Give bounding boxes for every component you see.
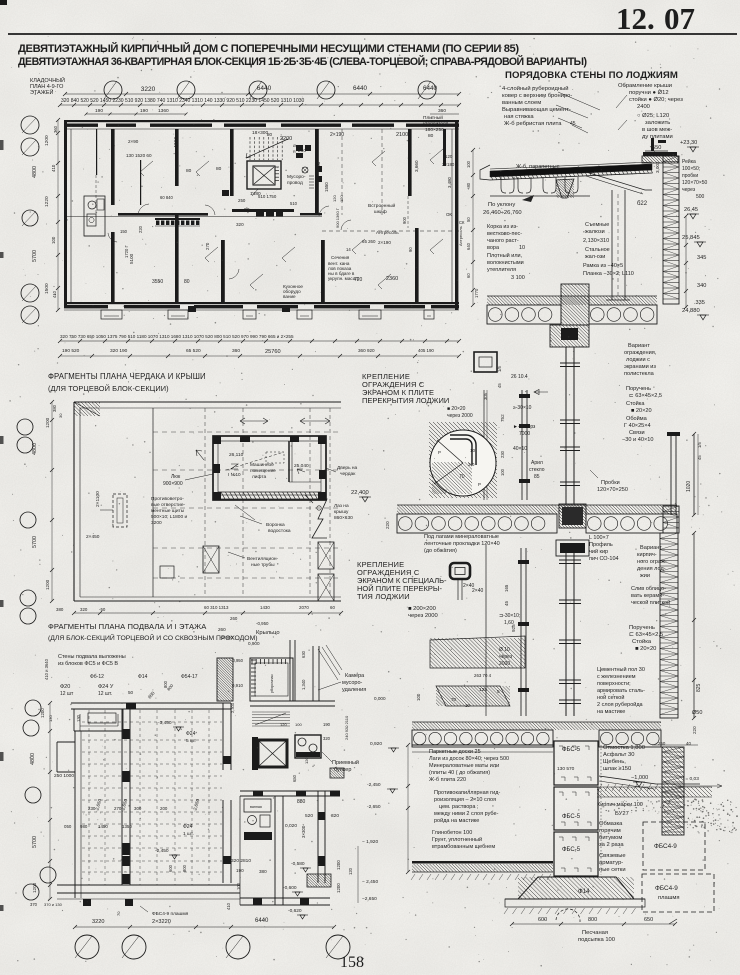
svg-text:Выравнивающая цемент-: Выравнивающая цемент- (502, 107, 571, 113)
svg-text:120: 120 (304, 757, 309, 764)
svg-text:Лаз на: Лаз на (334, 503, 349, 509)
svg-text:Песчаная: Песчаная (582, 930, 608, 936)
floor slab left lines (412, 744, 553, 746)
clamp detail 2 rounded (450, 563, 470, 579)
svg-text:Планка −30×2; L110: Планка −30×2; L110 (583, 271, 634, 277)
svg-text:утеплителя: утеплителя (487, 267, 516, 273)
svg-text:263 70 4: 263 70 4 (474, 673, 492, 678)
svg-text:300: 300 (134, 806, 142, 811)
jalousie frame (611, 190, 613, 300)
svg-text:Ф14: Ф14 (578, 888, 590, 895)
svg-text:ФБС4-9: ФБС4-9 (654, 843, 677, 850)
svg-text:ванная: ванная (250, 805, 262, 809)
svg-text:260: 260 (218, 627, 226, 632)
svg-text:120: 120 (348, 867, 353, 875)
svg-text:роизоляция – 2×10 слоя: роизоляция – 2×10 слоя (434, 797, 496, 803)
svg-text:3200: 3200 (151, 520, 162, 526)
svg-text:ФБС-5: ФБС-5 (562, 747, 581, 753)
svg-text:3,660: 3,660 (414, 160, 419, 172)
attic machine room (213, 436, 326, 500)
svg-text:пробки: пробки (682, 173, 698, 179)
basement right wall of left wing (222, 703, 224, 770)
svg-text:12 шт.: 12 шт. (98, 691, 112, 697)
svg-text:80: 80 (216, 166, 222, 172)
svg-text:825: 825 (696, 683, 702, 692)
svg-text:6440: 6440 (257, 85, 272, 92)
svg-text:1550: 1550 (324, 182, 329, 192)
attic drain funnel (312, 499, 327, 538)
svg-text:12.: 12. (616, 1, 655, 36)
svg-text:помещение: помещение (250, 469, 276, 474)
svg-text:410: 410 (226, 902, 231, 910)
svg-text:1020: 1020 (686, 481, 692, 492)
svg-text:100: 100 (51, 236, 56, 244)
svg-text:1450: 1450 (98, 824, 108, 829)
svg-text:Корка из из-: Корка из из- (487, 224, 518, 230)
svg-text:Антресоль: Антресоль (376, 230, 399, 235)
svg-text:0,900: 0,900 (248, 641, 260, 646)
machine room inner wall (288, 441, 290, 482)
svg-text:80: 80 (186, 168, 192, 174)
svg-text:5: 5 (497, 689, 500, 695)
svg-text:190: 190 (236, 868, 244, 873)
svg-text:Плотный или,: Плотный или, (487, 252, 523, 259)
svg-text:2360: 2360 (386, 276, 398, 282)
svg-text:3220: 3220 (92, 919, 104, 925)
svg-text:12 шт: 12 шт (60, 691, 74, 697)
attic outline (74, 401, 341, 403)
svg-text:стекло: стекло (529, 467, 545, 473)
svg-text:370 и 130: 370 и 130 (44, 902, 63, 907)
svg-text:водостока: водостока (268, 529, 291, 534)
svg-text:− 1,920: − 1,920 (362, 839, 378, 845)
plan1 door diagonals (140, 161, 153, 172)
svg-text:удаления: удаления (342, 687, 366, 693)
svg-text:190: 190 (323, 722, 331, 727)
svg-text:Машинное: Машинное (250, 462, 274, 468)
svg-text:ные трубы: ные трубы (251, 562, 275, 568)
svg-text:4-слойный рубероидный: 4-слойный рубероидный (502, 85, 568, 92)
stairs in entry (252, 711, 290, 713)
svg-text:120×70×50: 120×70×50 (682, 180, 708, 186)
svg-text:40×10: 40×10 (513, 446, 527, 452)
plan1 lower kitchen band (155, 218, 200, 220)
svg-text:Ф24: Ф24 (183, 824, 193, 830)
svg-text:ческой плиткой: ческой плиткой (631, 599, 670, 606)
svg-text:Фб-12: Фб-12 (90, 674, 104, 680)
svg-text:Приемный: Приемный (332, 759, 359, 766)
otmostka slope (599, 776, 700, 784)
ground hatch band (412, 861, 553, 864)
plan1 left axis circles (21, 116, 39, 134)
svg-text:укрупн. масшт.: укрупн. масшт. (328, 276, 359, 281)
svg-text:ментные щиты: ментные щиты (151, 509, 185, 514)
svg-text:24,880: 24,880 (682, 308, 700, 314)
svg-text:2000: 2000 (499, 661, 510, 667)
svg-text:320: 320 (80, 607, 88, 612)
svg-text:на мастике: на мастике (597, 709, 625, 715)
svg-text:ванным слоем: ванным слоем (502, 100, 541, 106)
svg-text:120: 120 (280, 722, 287, 727)
attic dashed pier (113, 494, 127, 527)
svg-text:220: 220 (385, 521, 390, 529)
svg-text:1720 Г: 1720 Г (124, 245, 129, 258)
pier below slab1 (550, 325, 589, 347)
right wall hatched block (307, 874, 331, 887)
svg-text:втрамбованным щебнем: втрамбованным щебнем (432, 844, 495, 850)
svg-text:900×900: 900×900 (163, 481, 183, 487)
slab1 hollow core (487, 305, 561, 324)
svg-text:чаного раст-: чаного раст- (487, 238, 519, 244)
svg-text:Стены подвала выложены: Стены подвала выложены (58, 654, 126, 660)
svg-text:260: 260 (230, 616, 238, 621)
svg-text:между ними 2 слоя рубе-: между ними 2 слоя рубе- (434, 811, 499, 817)
svg-text:битумом: битумом (599, 835, 622, 841)
svg-text:ПЕРЕКРЫТИЯ ЛОДЖИИ: ПЕРЕКРЫТИЯ ЛОДЖИИ (362, 396, 449, 405)
svg-text:2×180: 2×180 (442, 162, 455, 167)
roof ribs (501, 177, 514, 193)
svg-text:510 1750: 510 1750 (258, 194, 277, 199)
svg-text:через: через (499, 654, 513, 660)
svg-text:360: 360 (53, 125, 58, 133)
basement dashed grid vertical (88, 710, 90, 885)
svg-text:2×90: 2×90 (128, 139, 139, 144)
svg-text:22,400: 22,400 (351, 490, 369, 496)
bottom axis circles (75, 935, 99, 959)
svg-text:100: 100 (236, 882, 241, 890)
svg-text:Крыльцо: Крыльцо (256, 630, 280, 636)
entry left toilet box (217, 658, 233, 701)
svg-text:510: 510 (290, 201, 298, 206)
svg-text:пич СО-104: пич СО-104 (589, 556, 619, 562)
roof drain funnel (556, 179, 574, 198)
svg-text:Стойка: Стойка (626, 400, 645, 407)
sand pad circle (556, 909, 580, 922)
svg-text:Ж-б ребристая плита: Ж-б ребристая плита (504, 121, 562, 127)
svg-text:380: 380 (259, 869, 267, 874)
svg-text:900: 900 (402, 216, 407, 224)
svg-text:Съемные: Съемные (585, 222, 609, 228)
svg-text:2×1100: 2×1100 (95, 491, 101, 507)
paper noise (0, 0, 1, 1)
svg-text:(до обжатия): (до обжатия) (424, 548, 457, 554)
right brick wall upper (663, 156, 679, 304)
svg-text:ФРАГМЕНТЫ ПЛАНА ЧЕРДАКА И: ФРАГМЕНТЫ ПЛАНА ЧЕРДАКА И КРЫШИ (48, 372, 206, 381)
svg-text:240 920 2110: 240 920 2110 (344, 715, 349, 740)
svg-text:90: 90 (408, 247, 413, 252)
svg-text:600: 600 (168, 864, 173, 872)
basement bottom wall (57, 884, 240, 886)
trapezoid base (505, 898, 645, 900)
svg-text:Обрамление крыши: Обрамление крыши (618, 83, 672, 89)
svg-text:0,000: 0,000 (374, 696, 386, 701)
svg-text:14: 14 (346, 247, 351, 252)
svg-text:ФБС4-9 плашмя: ФБС4-9 плашмя (152, 911, 189, 917)
basement elevator (258, 740, 287, 767)
svg-text:500×10; L1800 и: 500×10; L1800 и (151, 514, 187, 520)
svg-text:Лаги из досок 80×40; через 500: Лаги из досок 80×40; через 500 (429, 756, 509, 762)
svg-text:Под лагами минераловатные: Под лагами минераловатные (424, 534, 499, 540)
svg-text:2400: 2400 (637, 104, 650, 110)
svg-text:25760: 25760 (265, 349, 281, 355)
svg-text:горячим: горячим (599, 828, 621, 834)
svg-text:0,920: 0,920 (370, 741, 382, 747)
svg-text:Глинобетон 100: Глинобетон 100 (432, 830, 472, 836)
svg-text:230: 230 (88, 806, 96, 811)
svg-text:⊏ 63×45×2,5: ⊏ 63×45×2,5 (629, 393, 662, 399)
svg-text:320: 320 (323, 736, 331, 741)
level3 left edge (485, 545, 487, 716)
svg-text:-0,950: -0,950 (256, 621, 269, 626)
upper appendix box (73, 709, 75, 731)
svg-text:шкаф: шкаф (374, 209, 387, 215)
svg-text:Р: Р (478, 482, 481, 487)
svg-text:380: 380 (52, 404, 57, 412)
svg-text:130 1520 60: 130 1520 60 (126, 153, 152, 158)
bathroom fixtures left (84, 196, 105, 236)
svg-text:жии: жии (640, 573, 650, 579)
svg-text:1770: 1770 (474, 288, 479, 298)
svg-text:65 260: 65 260 (362, 239, 376, 244)
svg-text:752: 752 (500, 414, 505, 422)
svg-text:i = 0,03: i = 0,03 (683, 776, 699, 782)
svg-text:130: 130 (48, 715, 53, 722)
bathroom lower (244, 799, 271, 812)
svg-text:+80: +80 (466, 182, 471, 190)
svg-text:230: 230 (500, 450, 505, 458)
slab2 hollow core (397, 514, 557, 533)
svg-text:520: 520 (305, 813, 313, 819)
plan1 kitchen vent blocks (256, 210, 264, 217)
svg-text:1200: 1200 (336, 860, 341, 870)
header rule (8, 33, 737, 35)
svg-text:1200: 1200 (45, 579, 50, 590)
svg-text:5700: 5700 (32, 250, 38, 262)
svg-text:50: 50 (466, 217, 471, 222)
svg-text:85: 85 (534, 474, 540, 480)
plan1 right exterior wall (455, 120, 458, 310)
svg-text:(ДЛЯ ТОРЦЕВОЙ БЛОК-СЕКЦИИ): (ДЛЯ ТОРЦЕВОЙ БЛОК-СЕКЦИИ) (48, 384, 169, 393)
svg-text:260: 260 (298, 148, 306, 154)
svg-text:Цементный пол 30: Цементный пол 30 (597, 666, 645, 673)
svg-text:320 750 730 650 1050 137: 320 750 730 650 1050 1375 790 510 1180 1… (60, 334, 294, 339)
svg-text:80: 80 (184, 279, 190, 285)
svg-text:ТИЯ ЛОДЖИИ: ТИЯ ЛОДЖИИ (357, 592, 410, 601)
svg-text:345: 345 (697, 255, 706, 261)
foundation width dims (512, 923, 675, 925)
svg-text:800: 800 (588, 917, 597, 923)
svg-text:Ф54-17: Ф54-17 (181, 674, 198, 680)
svg-text:45: 45 (697, 455, 702, 460)
svg-text:полистекла: полистекла (624, 371, 655, 377)
svg-text:100: 100 (416, 693, 421, 701)
svg-text:60 840: 60 840 (160, 195, 173, 200)
svg-text:650: 650 (644, 917, 653, 923)
svg-text:Стойка: Стойка (632, 638, 652, 645)
svg-text:100: 100 (500, 468, 505, 476)
svg-text:405 190: 405 190 (418, 348, 434, 353)
svg-text:Связевые: Связевые (599, 853, 626, 859)
svg-text:26 10.4: 26 10.4 (511, 374, 528, 380)
svg-text:Г 40×25×4: Г 40×25×4 (624, 423, 651, 429)
svg-text:-0,980: -0,980 (220, 635, 233, 640)
svg-text:30: 30 (58, 413, 63, 418)
svg-text:○ Ø25; L120: ○ Ø25; L120 (637, 113, 669, 119)
svg-text:120: 120 (332, 195, 337, 202)
svg-text:≥-30×10: ≥-30×10 (513, 405, 532, 411)
svg-text:120×70×250: 120×70×250 (597, 487, 628, 493)
svg-text:150: 150 (120, 229, 128, 234)
clamp detail (474, 352, 497, 372)
steps hatch (436, 686, 510, 706)
svg-text:ЭТАЖЕЙ: ЭТАЖЕЙ (30, 88, 54, 96)
basement dashed grid horizontal (82, 721, 222, 723)
svg-text:Рейка: Рейка (682, 158, 696, 165)
svg-text:0,020: 0,020 (285, 823, 297, 829)
svg-text:шлак ≥150: шлак ≥150 (603, 766, 631, 772)
vent shaft hatch (309, 175, 314, 177)
svg-text:410 и 3640: 410 и 3640 (44, 658, 49, 680)
roof left end (480, 165, 490, 180)
svg-text:130 570: 130 570 (557, 766, 575, 772)
svg-text:-2,450: -2,450 (155, 848, 169, 854)
svg-text:Арил: Арил (531, 460, 543, 466)
svg-text:3,0: 3,0 (468, 462, 475, 467)
svg-text:45: 45 (504, 601, 509, 606)
rounded bracket in circle (450, 437, 474, 465)
svg-text:10: 10 (519, 245, 525, 251)
svg-text:2200: 2200 (280, 136, 292, 142)
svg-text:-0,620: -0,620 (288, 908, 302, 914)
svg-text:270: 270 (205, 242, 210, 250)
svg-text:Связи: Связи (629, 430, 645, 436)
svg-text:1480: 1480 (250, 191, 261, 197)
svg-text:600: 600 (538, 917, 547, 923)
svg-text:БУ27: БУ27 (615, 811, 629, 817)
axis circles above plan1 (104, 81, 122, 99)
svg-text:через: через (682, 187, 696, 193)
svg-text:100: 100 (295, 722, 302, 727)
svg-text:Ф20: Ф20 (60, 684, 70, 690)
svg-text:Ж-б плита 220: Ж-б плита 220 (429, 777, 466, 783)
svg-text:Ф14: Ф14 (138, 674, 148, 680)
svg-text:2,130×310: 2,130×310 (583, 238, 609, 244)
svg-text:5100: 5100 (129, 253, 134, 264)
slab2 right brick block (663, 506, 679, 533)
svg-text:в шов меж-: в шов меж- (642, 127, 672, 133)
svg-text:поручни ● Ø12: поручни ● Ø12 (629, 90, 669, 96)
floor wedge hatch (430, 636, 525, 668)
svg-text:5700: 5700 (32, 836, 38, 848)
svg-text:-2,450: -2,450 (367, 782, 381, 788)
svg-text:Поручень: Поручень (626, 386, 651, 392)
sand dots right (602, 798, 738, 833)
svg-text:Рамка из −40×5: Рамка из −40×5 (583, 263, 623, 269)
svg-text:ограждения,: ограждения, (624, 350, 657, 356)
svg-text:►-10 юрз: ►-10 юрз (513, 424, 536, 430)
parapet slab (643, 152, 677, 156)
svg-text:ФБС-5: ФБС-5 (562, 847, 581, 853)
svg-text:6440: 6440 (353, 85, 368, 92)
svg-text:3×300: 3×300 (301, 825, 306, 838)
armored glass circle (430, 430, 496, 496)
svg-text:26,110: 26,110 (229, 452, 244, 458)
svg-text:305: 305 (483, 392, 488, 400)
svg-text:360: 360 (232, 348, 240, 354)
svg-text:Дверь на: Дверь на (337, 465, 358, 471)
svg-text:Ø 10: Ø 10 (499, 647, 510, 653)
plan1 door swing arcs (138, 204, 149, 215)
level3 right brick wall (660, 533, 678, 718)
svg-text:б22: б22 (637, 201, 648, 207)
svg-text:ФБС4-9: ФБС4-9 (655, 885, 678, 892)
svg-text:вание: вание (283, 294, 296, 299)
svg-text:1500: 1500 (44, 283, 50, 294)
svg-text:ные сетки: ные сетки (599, 867, 626, 873)
svg-text:■ 20×20: ■ 20×20 (447, 406, 466, 412)
svg-text:70: 70 (451, 697, 457, 702)
svg-text:Р: Р (438, 450, 441, 455)
svg-text:Люк: Люк (171, 474, 181, 480)
svg-text:Вентиляцион-: Вентиляцион- (247, 556, 279, 562)
svg-text:подсыпка 100: подсыпка 100 (578, 937, 615, 943)
svg-text:10: 10 (470, 448, 476, 453)
svg-text:−30 и 40×10: −30 и 40×10 (622, 437, 653, 443)
svg-text:ОК: ОК (446, 212, 452, 217)
svg-text:лоджии с: лоджии с (626, 357, 650, 363)
svg-text:1430: 1430 (260, 605, 270, 610)
svg-text:−2,650: −2,650 (362, 896, 377, 902)
svg-text:1/5: 1/5 (697, 442, 702, 448)
attic left axis circles (17, 419, 33, 435)
svg-text:70: 70 (459, 474, 465, 480)
svg-text:−1,000: −1,000 (631, 775, 648, 781)
svg-text:07: 07 (664, 1, 695, 36)
svg-text:3550: 3550 (152, 279, 163, 285)
svg-text:5 шт: 5 шт (186, 738, 197, 744)
svg-text:26,460÷26,760: 26,460÷26,760 (483, 210, 522, 216)
svg-text:360: 360 (438, 108, 446, 114)
svg-text:6440: 6440 (255, 918, 269, 924)
svg-text:плашмя: плашмя (658, 895, 680, 901)
svg-text:через 2000: через 2000 (408, 613, 438, 619)
slab3 hollow core (412, 730, 553, 747)
svg-text:L 100×7: L 100×7 (589, 535, 609, 541)
svg-text:лифта: лифта (252, 474, 266, 480)
svg-text:190: 190 (140, 108, 148, 114)
attic roof arrows (240, 418, 268, 424)
svg-text:за 2 раза: за 2 раза (599, 842, 624, 848)
svg-text:2250: 2250 (316, 161, 321, 172)
svg-text:60 310 1313: 60 310 1313 (204, 605, 229, 610)
svg-text:Поручень: Поручень (629, 625, 655, 631)
svg-text:Грунт, уплотненный: Грунт, уплотненный (432, 836, 482, 843)
svg-text:уборочная: уборочная (270, 674, 274, 693)
level2 screen wall (521, 390, 523, 500)
plan1 elevator shaft (247, 161, 281, 189)
plan1 lamp symbol (302, 167, 308, 173)
svg-text:чий кир: чий кир (589, 548, 608, 555)
svg-text:25,040: 25,040 (294, 463, 309, 469)
svg-text:− 2,450: − 2,450 (362, 879, 378, 885)
svg-text:3,002: 3,002 (655, 161, 660, 173)
plan1 mid horizontal wall (118, 213, 208, 216)
svg-text:800: 800 (182, 864, 187, 872)
svg-text:980: 980 (80, 824, 88, 829)
svg-text:2 слоя руберойда: 2 слоя руберойда (597, 701, 644, 708)
slab2 pier dark (559, 504, 586, 528)
svg-text:320: 320 (331, 813, 339, 819)
